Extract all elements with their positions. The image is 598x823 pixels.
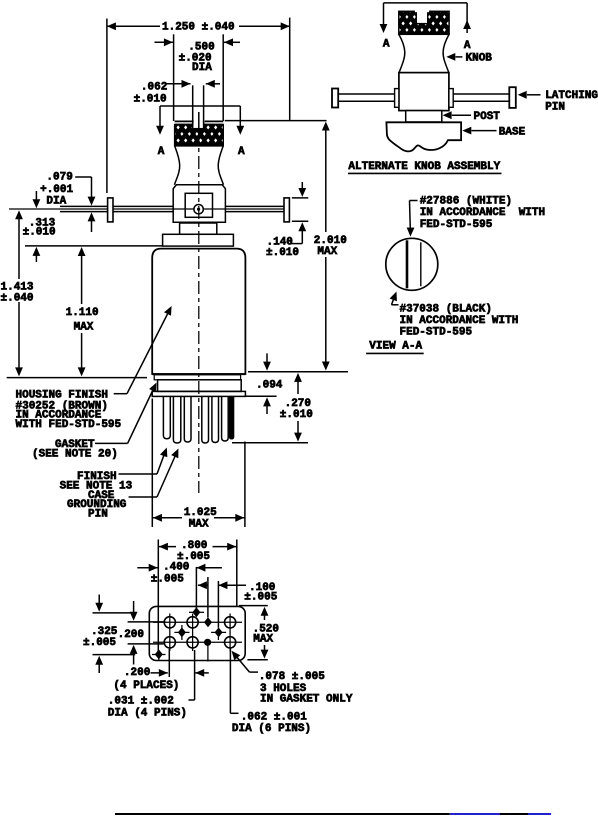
gasket hole top bbox=[192, 607, 200, 617]
svg-text:±.005: ±.005 bbox=[244, 592, 277, 604]
terminal pins (side view) bbox=[163, 396, 234, 443]
dimension 2.010 MAX bbox=[314, 122, 347, 371]
post (alternate assembly) bbox=[406, 111, 442, 122]
svg-text:A: A bbox=[158, 146, 165, 158]
title: alternate knob assembly bbox=[348, 161, 502, 173]
leader: finish note bbox=[60, 446, 171, 492]
svg-text:MAX: MAX bbox=[74, 322, 94, 334]
pin 6 (side view) bbox=[222, 396, 229, 441]
svg-text:FED-STD-595: FED-STD-595 bbox=[420, 219, 493, 231]
dimension .200 (row pitch) bbox=[118, 601, 166, 665]
pin 3 (side view) bbox=[184, 396, 191, 442]
label KNOB bbox=[446, 53, 492, 65]
latching pin (alternate assembly) bbox=[332, 87, 516, 108]
svg-text:BASE: BASE bbox=[499, 126, 526, 138]
svg-text:WITH FED-STD-595: WITH FED-STD-595 bbox=[16, 419, 122, 431]
svg-text:A: A bbox=[464, 40, 471, 52]
dimension .270 ±.010 bbox=[232, 373, 313, 443]
svg-text:.200: .200 bbox=[118, 629, 144, 641]
svg-text:.078 ±.005: .078 ±.005 bbox=[259, 671, 325, 683]
gasket hole upper-mid bbox=[204, 617, 212, 627]
svg-text:1.250 ±.040: 1.250 ±.040 bbox=[162, 21, 235, 33]
svg-text:DIA: DIA bbox=[46, 196, 66, 208]
dimension .500 ±.020 DIA bbox=[155, 34, 241, 121]
svg-text:1.110: 1.110 bbox=[66, 307, 99, 319]
centerline (main view) bbox=[198, 131, 200, 493]
housing bottom extension line (left) bbox=[7, 377, 147, 379]
svg-text:PIN: PIN bbox=[88, 509, 108, 521]
svg-text:.325: .325 bbox=[91, 626, 118, 638]
svg-text:±.010: ±.010 bbox=[266, 247, 299, 259]
leader .031 dia 4 pins bbox=[108, 695, 195, 719]
svg-text:±.010: ±.010 bbox=[134, 93, 167, 105]
dimension .100 ±.005 (bottom view) bbox=[198, 577, 278, 628]
knob (main view) bbox=[174, 112, 223, 185]
dimension .062 ±.010 (knob slot) bbox=[134, 80, 220, 129]
dimension .140 ±.010 (latching pin cap) bbox=[266, 182, 308, 259]
section line A-A (alternate assembly) bbox=[380, 3, 471, 52]
dimension .325 ±.005 bbox=[83, 595, 135, 674]
leader .078 3 holes bbox=[229, 648, 353, 705]
pin 4 (side view) bbox=[202, 396, 209, 443]
svg-text:A: A bbox=[238, 146, 245, 158]
alternate knob body bbox=[399, 73, 449, 111]
dimension .400 ±.005 (bottom view) bbox=[137, 562, 222, 609]
svg-text:PIN: PIN bbox=[545, 101, 565, 113]
svg-text:DIA: DIA bbox=[192, 62, 212, 74]
dimension .800 ±.005 (bottom view) bbox=[158, 540, 237, 652]
svg-text:.094: .094 bbox=[256, 380, 283, 392]
svg-text:IN GASKET ONLY: IN GASKET ONLY bbox=[260, 694, 353, 706]
pin hole bottom-mid bbox=[187, 637, 198, 648]
dimension .200 (4 places) bbox=[113, 649, 208, 700]
svg-text:ALTERNATE KNOB ASSEMBLY: ALTERNATE KNOB ASSEMBLY bbox=[348, 161, 500, 173]
label POST bbox=[443, 111, 501, 123]
svg-text:±.010: ±.010 bbox=[23, 227, 56, 239]
dimension 1.025 MAX bbox=[152, 399, 245, 531]
dimension .520 MAX bbox=[239, 606, 279, 660]
svg-text:VIEW A-A: VIEW A-A bbox=[369, 341, 422, 353]
contact pins .062 DIA (crossed circles, bottom view) bbox=[164, 617, 236, 648]
svg-text:DIA (6 PINS): DIA (6 PINS) bbox=[232, 723, 311, 735]
callout 37038 black bbox=[390, 290, 519, 339]
leader .062 dia 6 pins bbox=[230, 649, 311, 735]
pin hole bottom-right bbox=[225, 637, 236, 648]
svg-text:MAX: MAX bbox=[253, 633, 273, 645]
dimension .079 +.001 DIA (pin diameter) bbox=[40, 171, 95, 232]
housing cylinder bbox=[152, 249, 245, 374]
pin hole bottom-left bbox=[164, 637, 175, 648]
pin 1 (side view) bbox=[163, 396, 170, 438]
svg-text:POST: POST bbox=[474, 111, 501, 123]
leader: case grounding pin bbox=[67, 447, 182, 521]
leader: housing finish bbox=[16, 304, 176, 431]
label LATCHING PIN bbox=[518, 90, 598, 114]
dimension 1.250 ±.040 bbox=[107, 18, 290, 193]
pin hole top-right bbox=[225, 617, 236, 628]
mounting flange bbox=[163, 234, 234, 246]
post under latch body bbox=[180, 223, 217, 234]
svg-text:.200: .200 bbox=[124, 667, 150, 679]
dimension 1.413 ±.040 bbox=[1, 210, 34, 376]
svg-text:±.040: ±.040 bbox=[1, 292, 34, 304]
footer rule bbox=[115, 813, 450, 816]
svg-text:.400: .400 bbox=[163, 562, 189, 574]
pin row centerlines (bottom view) bbox=[152, 612, 242, 661]
title: view A-A bbox=[366, 341, 424, 354]
svg-text:.031 ±.002: .031 ±.002 bbox=[108, 695, 174, 707]
gasket hole mid-left bbox=[178, 627, 186, 637]
dimension .313 ±.010 bbox=[23, 191, 56, 262]
label BASE bbox=[462, 126, 525, 138]
svg-text:+.001: +.001 bbox=[40, 184, 73, 196]
svg-text:.062: .062 bbox=[141, 82, 167, 94]
svg-text:MAX: MAX bbox=[189, 518, 209, 530]
callout 27886 white bbox=[407, 195, 546, 236]
svg-text:.062 ±.001: .062 ±.001 bbox=[241, 712, 307, 724]
pin hole top-left bbox=[164, 617, 175, 628]
flange top extension line bbox=[25, 245, 163, 247]
gasket hole bottom-left bbox=[155, 649, 163, 659]
svg-text:±.010: ±.010 bbox=[280, 409, 313, 421]
svg-text:±.005: ±.005 bbox=[151, 573, 184, 585]
svg-text:#37038 (BLACK): #37038 (BLACK) bbox=[400, 304, 492, 316]
latching pin bar (main view) bbox=[9, 198, 289, 222]
gasket holes .078 (filled diamonds, bottom view) bbox=[155, 607, 223, 659]
gasket stack under housing bbox=[152, 374, 245, 396]
svg-text:LATCHING: LATCHING bbox=[545, 90, 598, 102]
case grounding pin (solid, bottom view) bbox=[204, 639, 211, 646]
svg-text:#27886 (WHITE): #27886 (WHITE) bbox=[420, 195, 512, 207]
svg-text:±.005: ±.005 bbox=[83, 637, 116, 649]
dimension 1.110 MAX bbox=[66, 247, 99, 376]
dimension .094 (gasket) bbox=[246, 353, 283, 414]
svg-text:IN ACCORDANCE WITH: IN ACCORDANCE WITH bbox=[400, 315, 519, 327]
svg-text:DIA (4 PINS): DIA (4 PINS) bbox=[108, 708, 187, 720]
svg-text:FED-STD-595: FED-STD-595 bbox=[400, 327, 473, 339]
leader: gasket note bbox=[32, 381, 160, 461]
latch body square (main view) bbox=[173, 185, 225, 223]
view A-A circle bbox=[386, 238, 438, 290]
gasket hole mid-right bbox=[215, 627, 223, 637]
connector base outline (bottom view) bbox=[149, 606, 245, 660]
svg-text:IN ACCORDANCE WITH: IN ACCORDANCE WITH bbox=[420, 207, 545, 219]
svg-text:MAX: MAX bbox=[317, 246, 337, 258]
housing bottom extension line (right) bbox=[248, 371, 348, 373]
svg-text:A: A bbox=[383, 39, 390, 51]
pin 2 (side view) bbox=[173, 396, 180, 443]
svg-text:.079: .079 bbox=[46, 171, 72, 183]
pin 5 (side view) bbox=[212, 396, 219, 442]
svg-text:(SEE NOTE 20): (SEE NOTE 20) bbox=[32, 448, 118, 460]
svg-text:(4 PLACES): (4 PLACES) bbox=[113, 680, 179, 692]
case grounding pin (solid, side view) bbox=[229, 396, 234, 439]
base (alternate assembly) bbox=[386, 122, 461, 151]
pin hole top-mid bbox=[187, 617, 198, 628]
knob top extension line to 2.010 bbox=[225, 120, 327, 122]
section line A-A (main view) bbox=[156, 106, 245, 158]
alternate knob (knurled head) bbox=[399, 11, 449, 73]
svg-text:KNOB: KNOB bbox=[466, 53, 493, 65]
